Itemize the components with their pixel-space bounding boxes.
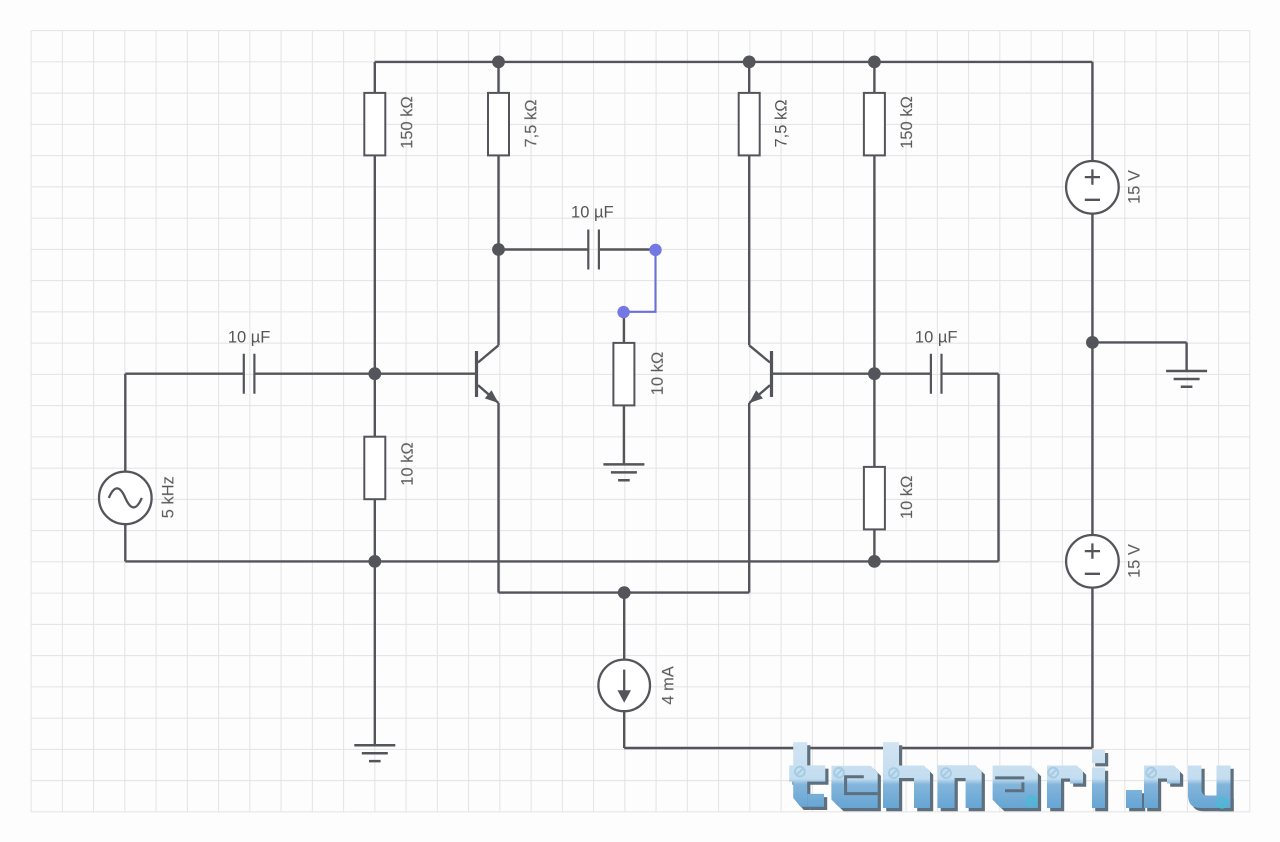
- svg-text:10 kΩ: 10 kΩ: [898, 476, 916, 520]
- svg-text:7,5 kΩ: 7,5 kΩ: [522, 99, 540, 147]
- svg-text:7,5 kΩ: 7,5 kΩ: [773, 99, 791, 147]
- svg-text:150 kΩ: 150 kΩ: [398, 96, 416, 149]
- svg-text:10 µF: 10 µF: [571, 203, 614, 221]
- svg-text:150 kΩ: 150 kΩ: [898, 96, 916, 149]
- svg-text:5 kHz: 5 kHz: [160, 476, 178, 518]
- svg-text:10 µF: 10 µF: [915, 329, 958, 347]
- svg-text:4 mA: 4 mA: [659, 666, 677, 705]
- svg-text:10 µF: 10 µF: [228, 329, 271, 347]
- svg-text:15 V: 15 V: [1126, 544, 1144, 578]
- svg-text:15 V: 15 V: [1126, 170, 1144, 204]
- svg-text:10 kΩ: 10 kΩ: [399, 442, 417, 486]
- svg-text:10 kΩ: 10 kΩ: [649, 352, 667, 396]
